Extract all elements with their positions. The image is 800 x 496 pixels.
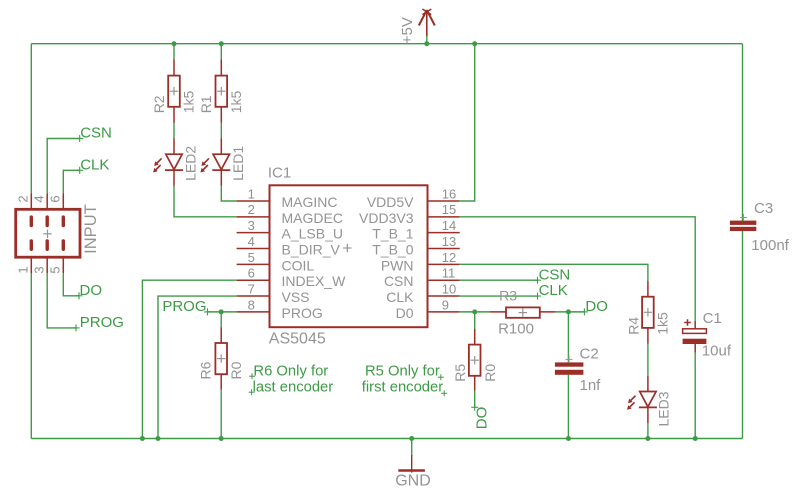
junction R1 on +5V rail [219, 41, 224, 46]
junction +5V on rail [424, 41, 429, 46]
wire C3 bottom to GND rail [742, 231, 744, 439]
svg-text:DO: DO [474, 407, 491, 430]
label R6 [197, 361, 213, 379]
svg-text:7: 7 [248, 281, 255, 296]
junction INDEX_W at rail [140, 436, 145, 441]
connector INPUT pin slots [30, 215, 65, 251]
svg-text:100nf: 100nf [751, 237, 789, 254]
+5V supply symbol [419, 9, 435, 44]
svg-text:4: 4 [248, 234, 255, 249]
svg-text:PROG: PROG [80, 314, 124, 331]
capacitor C2 [555, 356, 584, 375]
resistor R5 [469, 329, 481, 391]
wire PROG junction to R6 [220, 312, 222, 328]
svg-text:2: 2 [16, 195, 31, 202]
pin number 3 [32, 266, 47, 273]
svg-text:10uf: 10uf [702, 342, 732, 359]
svg-text:B_DIR_V: B_DIR_V [282, 242, 341, 258]
svg-text:CSN: CSN [539, 266, 571, 283]
connector INPUT pin stubs [31, 194, 63, 274]
svg-text:11: 11 [442, 266, 456, 281]
svg-text:1: 1 [16, 266, 31, 273]
label GND [395, 473, 431, 490]
junction R6 at rail [219, 436, 224, 441]
svg-text:5: 5 [48, 266, 63, 273]
node DO label rotated [471, 404, 490, 429]
svg-text:T_B_1: T_B_1 [372, 226, 413, 242]
svg-text:4: 4 [32, 195, 47, 202]
svg-text:6: 6 [48, 195, 63, 202]
junction LED3 at rail [645, 436, 650, 441]
note R6 only [249, 363, 334, 395]
wire LED1 to IC pin [221, 186, 236, 201]
IC right pin stubs [428, 201, 460, 312]
wire +5V rail to R2 [173, 44, 175, 60]
svg-text:3: 3 [248, 218, 255, 233]
junction R2 on +5V rail [172, 41, 177, 46]
wire R1 to LED1 [220, 123, 222, 139]
svg-text:PROG: PROG [162, 298, 206, 315]
svg-text:AS5045: AS5045 [269, 331, 326, 348]
wire INPUT pin 4 to CSN [47, 139, 79, 194]
value AS5045 [269, 331, 326, 348]
svg-text:CLK: CLK [539, 282, 568, 299]
svg-text:A_LSB_U: A_LSB_U [282, 226, 343, 242]
wire IC pin 10 CLK [460, 295, 538, 297]
svg-text:last encoder: last encoder [253, 379, 334, 395]
pin number 2 [16, 195, 31, 202]
svg-text:13: 13 [442, 234, 456, 249]
junction GND on rail [409, 436, 414, 441]
svg-text:CSN: CSN [80, 125, 112, 142]
svg-text:9: 9 [442, 297, 449, 312]
svg-text:LED2: LED2 [183, 146, 199, 181]
value 1k5 of R1 [228, 91, 244, 114]
wire R3 to DO [556, 311, 585, 313]
svg-text:16: 16 [442, 186, 456, 201]
wire IC pin 16 VDD5V to +5V rail [460, 44, 475, 201]
svg-text:R2: R2 [151, 95, 167, 113]
junction PROG / R6 [219, 309, 224, 314]
IC pin names right [359, 194, 414, 321]
pin number 6 [48, 195, 63, 202]
junction C1 at rail [693, 436, 698, 441]
label LED2 [183, 146, 199, 181]
IC pin numbers 1-8 [248, 186, 255, 312]
wire LED2 to IC pin [174, 186, 237, 217]
resistor R6 [215, 328, 227, 390]
svg-text:R100: R100 [498, 320, 534, 337]
pin number 1 [16, 266, 31, 273]
label R1 [198, 95, 214, 113]
label LED1 [230, 146, 246, 181]
svg-text:8: 8 [248, 297, 255, 312]
value 1k5 of R2 [181, 91, 197, 114]
svg-text:MAGDEC: MAGDEC [282, 210, 343, 226]
svg-text:COIL: COIL [282, 257, 315, 273]
label LED3 [655, 391, 671, 426]
svg-text:+5V: +5V [399, 17, 416, 44]
ground GND symbol [398, 455, 425, 473]
svg-text:C3: C3 [754, 200, 773, 217]
svg-text:14: 14 [442, 218, 456, 233]
svg-text:2: 2 [248, 202, 255, 217]
svg-text:CSN: CSN [384, 273, 414, 289]
svg-text:R6 Only for: R6 Only for [253, 363, 328, 379]
IC left pin stubs [237, 201, 270, 312]
wire GND bottom rail [31, 438, 742, 440]
value 10uf [702, 342, 732, 359]
value R100 [498, 320, 534, 337]
svg-text:3: 3 [32, 266, 47, 273]
svg-text:1nf: 1nf [580, 377, 602, 394]
label IC1 [268, 164, 291, 181]
node PROG label right [162, 298, 211, 315]
wire C2 to GND rail [567, 375, 569, 439]
node CLK label right [534, 282, 568, 299]
svg-text:DO: DO [585, 298, 608, 315]
wire IC pin 11 CSN [460, 279, 538, 281]
node CSN label left [76, 125, 112, 142]
svg-text:R3: R3 [499, 287, 517, 303]
svg-text:VDD3V3: VDD3V3 [359, 210, 414, 226]
wire INPUT pin 5 to DO [63, 273, 79, 296]
svg-text:LED1: LED1 [230, 146, 246, 181]
LED LED2 [153, 139, 183, 186]
junction VDD5V on rail [472, 41, 477, 46]
pin number 5 [48, 266, 63, 273]
svg-text:PROG: PROG [282, 305, 323, 321]
value R0 of R6 [228, 361, 244, 379]
svg-text:T_B_0: T_B_0 [372, 242, 413, 258]
junction D0 / R5 [472, 309, 477, 314]
wire +5V top rail [31, 43, 742, 45]
svg-text:MAGINC: MAGINC [282, 194, 338, 210]
svg-text:15: 15 [442, 202, 456, 217]
junction C2 at rail [566, 436, 571, 441]
svg-text:GND: GND [395, 473, 431, 490]
svg-text:R5: R5 [452, 364, 468, 382]
wire IC pin 12 PWN to R4 [460, 264, 648, 281]
value 1k5 of R4 [654, 312, 670, 335]
wire R2 to LED2 [173, 123, 175, 139]
resistor R1 [216, 60, 228, 123]
wire IC pin 6 INDEX_W to GND rail [142, 280, 236, 438]
junction R3 / C2 [566, 309, 571, 314]
svg-text:1k5: 1k5 [181, 91, 197, 114]
wire IC pin 9 D0 to R3 [460, 311, 491, 313]
LED LED3 [627, 376, 657, 423]
label +5V [399, 17, 416, 44]
connector INPUT body [16, 209, 80, 257]
node CLK label left [76, 156, 109, 173]
wire INPUT pin 3 to PROG [47, 273, 76, 328]
svg-text:R0: R0 [228, 361, 244, 379]
svg-text:R6: R6 [197, 361, 213, 379]
svg-text:LED3: LED3 [655, 391, 671, 426]
svg-text:VDD5V: VDD5V [367, 194, 414, 210]
wire D0 junction to R5 [474, 312, 476, 345]
svg-text:first encoder: first encoder [362, 379, 443, 395]
label R2 [151, 95, 167, 113]
wire R6 to GND rail [220, 390, 222, 439]
wire GND stem [411, 439, 413, 457]
svg-text:12: 12 [442, 250, 456, 265]
wire LED3 to GND rail [647, 423, 649, 438]
svg-text:CLK: CLK [386, 289, 414, 305]
node PROG label left [73, 314, 124, 331]
wire +5V rail to R1 [220, 44, 222, 60]
node DO label left [76, 282, 103, 299]
svg-text:C2: C2 [580, 346, 599, 363]
label C1 [703, 310, 722, 327]
svg-text:R1: R1 [198, 95, 214, 113]
svg-text:C1: C1 [703, 310, 722, 327]
svg-text:VSS: VSS [282, 289, 310, 305]
svg-text:R5 Only for: R5 Only for [365, 363, 440, 379]
label C3 [754, 200, 773, 217]
value 1nf [580, 377, 602, 394]
svg-text:R4: R4 [626, 317, 642, 335]
value R0 of R5 [482, 364, 498, 382]
wire R4 to LED3 [647, 344, 649, 377]
wire IC pin 15 VDD3V3 to C1 [460, 217, 696, 321]
wire R5 to DO label [474, 391, 476, 408]
svg-text:D0: D0 [396, 305, 414, 321]
label R5 [452, 364, 468, 382]
IC pin numbers 16-9 [442, 186, 456, 312]
resistor R3 [490, 307, 555, 317]
svg-text:1: 1 [248, 186, 255, 201]
svg-text:DO: DO [80, 282, 103, 299]
node DO label right [581, 298, 608, 315]
svg-text:R0: R0 [482, 364, 498, 382]
pin number 4 [32, 195, 47, 202]
label R4 [626, 317, 642, 335]
wire C2 top [567, 312, 569, 363]
wire INPUT pin 1 to GND rail [30, 273, 32, 439]
svg-text:INPUT: INPUT [82, 204, 100, 254]
wire C1 to GND rail [694, 353, 696, 439]
junction VSS at rail [156, 436, 161, 441]
svg-text:CLK: CLK [80, 156, 109, 173]
wire IC pin 8 PROG [208, 311, 237, 313]
capacitor C3 [730, 214, 756, 231]
svg-text:5: 5 [248, 250, 255, 265]
resistor R2 [168, 60, 180, 123]
svg-text:1k5: 1k5 [654, 312, 670, 335]
wire INPUT pin 6 to CLK [63, 170, 79, 193]
note R5 only [362, 363, 447, 396]
label INPUT [82, 204, 100, 254]
svg-text:1k5: 1k5 [228, 91, 244, 114]
svg-text:10: 10 [442, 281, 456, 296]
resistor R4 [642, 281, 654, 343]
wire IC pin 7 VSS to GND rail [158, 296, 237, 438]
label C2 [580, 346, 599, 363]
IC pin names left [282, 194, 347, 321]
LED LED1 [200, 139, 230, 186]
wire +5V to INPUT pin 2 [30, 44, 32, 194]
svg-text:INDEX_W: INDEX_W [282, 273, 347, 289]
svg-text:6: 6 [248, 266, 255, 281]
value 100nf [751, 237, 789, 254]
svg-text:IC1: IC1 [268, 164, 291, 181]
capacitor C1 [683, 319, 707, 352]
label R3 [499, 287, 517, 303]
op-amp U1 IC1 box [270, 185, 428, 327]
node CSN label right [534, 266, 570, 283]
svg-text:PWN: PWN [381, 257, 414, 273]
wire right edge to C3 top [742, 44, 744, 221]
